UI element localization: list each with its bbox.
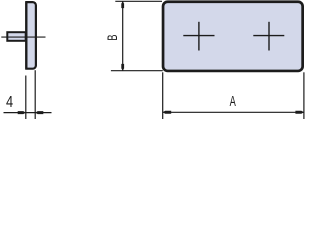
side view: stem bbox=[7, 32, 25, 41]
center mark cross 2 vertical bbox=[268, 22, 270, 51]
dimension line (dim 4) bbox=[4, 112, 52, 114]
extension line right (dim 4) bbox=[34, 70, 36, 119]
dim A dimension line bbox=[163, 111, 304, 113]
dim B bottom extension line bbox=[111, 70, 163, 72]
dim A arrowhead left bbox=[163, 111, 172, 114]
dim B top extension line bbox=[115, 0, 162, 2]
svg-text:B: B bbox=[104, 34, 121, 40]
center mark cross 1 horizontal bbox=[183, 35, 214, 37]
center mark cross 1 vertical bbox=[198, 22, 200, 51]
dim B dimension line bbox=[122, 1, 124, 70]
side view: cap flange slab bbox=[26, 2, 36, 69]
dim A arrowhead right bbox=[295, 111, 304, 114]
arrowhead pointing right at left ext bbox=[18, 111, 26, 114]
extension line left (dim 4) bbox=[25, 76, 27, 120]
center mark cross 2 horizontal bbox=[253, 35, 284, 37]
dim A right extension line bbox=[303, 72, 305, 119]
dim B arrowhead down bbox=[121, 64, 124, 71]
svg-text:4: 4 bbox=[6, 94, 13, 112]
arrowhead pointing left at right ext bbox=[35, 111, 43, 114]
dim B arrowhead up bbox=[121, 1, 124, 8]
centerline through stem bbox=[1, 36, 45, 38]
side view slab left edge redraw over stem joint bbox=[25, 2, 27, 69]
svg-text:A: A bbox=[230, 93, 237, 110]
dim A left extension line bbox=[162, 72, 164, 119]
top view: cap body rounded rect bbox=[163, 2, 303, 71]
